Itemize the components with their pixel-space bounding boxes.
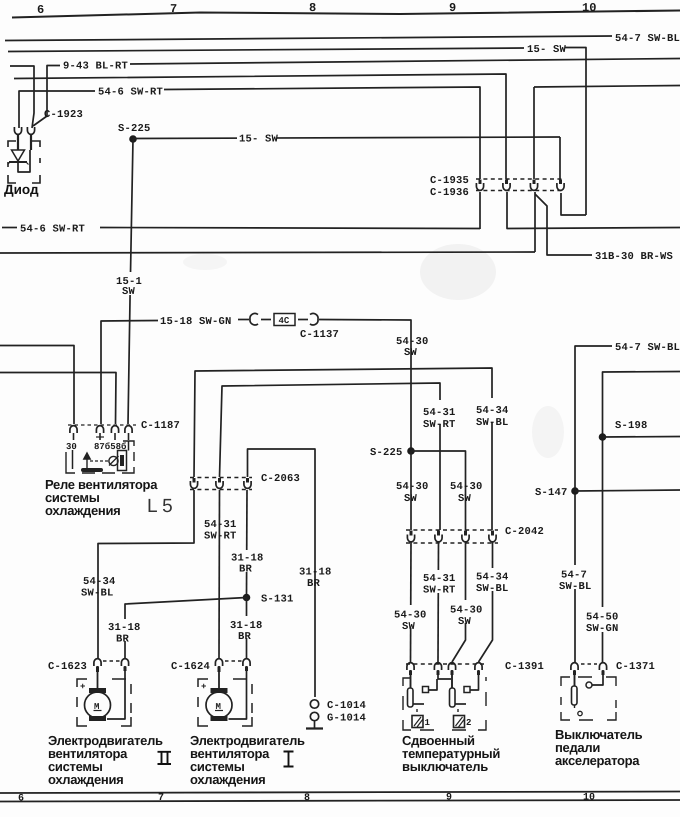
connector C-1923 pin 1	[14, 127, 21, 134]
wire 9-43 BL-RT left stub to diode	[10, 66, 34, 128]
C-1187 pin 30	[70, 426, 77, 433]
accel switch plunger	[572, 686, 578, 705]
svg-text:9: 9	[446, 793, 452, 804]
svg-text:BR: BR	[239, 564, 253, 576]
motor II return wire	[124, 667, 127, 672]
svg-text:C-1935: C-1935	[430, 175, 469, 187]
connector C-1187 dashed line	[68, 424, 136, 426]
svg-text:SW-RT: SW-RT	[423, 419, 456, 431]
C-2042 pin 3	[464, 531, 467, 536]
svg-text:S-225: S-225	[370, 447, 403, 459]
svg-text:Диод: Диод	[4, 182, 39, 197]
relay internal stems	[72, 450, 74, 469]
C-1187 pin 2	[96, 426, 103, 433]
svg-text:S-225: S-225	[118, 123, 151, 135]
wire C-2042 pin4 down diagonal to C-1391 pin4	[479, 542, 493, 662]
svg-text:C-1923: C-1923	[44, 109, 83, 121]
motor I bottom brush	[211, 716, 228, 721]
connector C-1936 dashed line	[476, 190, 564, 192]
svg-text:31B-30 BR-WS: 31B-30 BR-WS	[595, 251, 673, 263]
top border ruler line	[12, 11, 680, 18]
node S-147 splice	[571, 487, 579, 495]
C-2042 pin 4	[491, 531, 494, 536]
motor II M1 feed wire	[97, 666, 99, 690]
C-1935 pin 3	[533, 180, 536, 185]
temp switch pin3 stem	[451, 670, 453, 688]
temp switch pin1 stem	[410, 670, 412, 688]
motor I M2 body	[206, 692, 232, 718]
svg-text:54-34: 54-34	[476, 405, 509, 417]
svg-text:BR: BR	[307, 578, 321, 590]
label 15- SW mid	[237, 128, 277, 140]
svg-text:54-31: 54-31	[204, 519, 237, 531]
svg-text:C-1624: C-1624	[171, 661, 210, 673]
svg-text:10: 10	[583, 793, 595, 804]
svg-text:54-30: 54-30	[450, 481, 483, 493]
connector C-1371 dashes	[581, 663, 597, 665]
svg-text:54-31: 54-31	[423, 407, 456, 419]
svg-text:54-7 SW-BL: 54-7 SW-BL	[615, 342, 680, 354]
connector C-1923 pin 2	[27, 127, 34, 134]
svg-text:1: 1	[425, 718, 431, 728]
svg-text:54-31: 54-31	[423, 573, 456, 585]
svg-text:54-34: 54-34	[476, 572, 509, 584]
inline connector 4C box	[274, 314, 295, 326]
svg-text:6: 6	[18, 794, 24, 805]
svg-text:4C: 4C	[279, 316, 290, 326]
wire C-2063 pin1 down to motor II	[98, 490, 194, 658]
svg-text:54-7 SW-BL: 54-7 SW-BL	[615, 33, 680, 45]
svg-text:C-1014: C-1014	[327, 700, 366, 712]
svg-text:15-18 SW-GN: 15-18 SW-GN	[160, 316, 232, 328]
wire corner down to C-1935 pin 4	[559, 137, 561, 179]
wire pin3 branch to 31B-30 label	[535, 194, 592, 255]
svg-text:C-1187: C-1187	[141, 420, 180, 432]
wire motor II pin2 up over to S-131	[125, 598, 247, 659]
label 54-34 SW-BL right column	[474, 398, 508, 422]
label 31-18 BR above S-131	[229, 550, 262, 572]
label 54-30 SW below pin3	[448, 600, 481, 623]
relay pin stems	[73, 433, 75, 440]
connector C-1391 dashed line	[406, 663, 484, 665]
accel switch lower dot	[574, 705, 576, 708]
temp switch box dashed	[403, 677, 486, 730]
svg-text:G-1014: G-1014	[327, 713, 366, 725]
wire branch S-225 to pin3 column	[411, 451, 466, 530]
C-1371 pin 2	[599, 663, 606, 670]
svg-text:15- SW: 15- SW	[527, 44, 567, 56]
svg-text:8: 8	[309, 1, 316, 15]
C-2063 pin 2	[218, 478, 221, 483]
C-2063 pin 1	[193, 478, 196, 483]
svg-text:54-6 SW-RT: 54-6 SW-RT	[20, 224, 85, 236]
connector C-2042 dashed line 2	[406, 542, 498, 544]
relay armature bar	[81, 468, 103, 472]
wire 9-43 BL-RT bus to right edge	[130, 59, 680, 65]
svg-text:SW: SW	[402, 621, 416, 633]
temp switch plunger 1	[408, 688, 414, 707]
svg-text:9-43 BL-RT: 9-43 BL-RT	[63, 61, 128, 73]
wire S-131 down to C-1624 pin2	[246, 598, 248, 659]
svg-text:31-18: 31-18	[108, 622, 141, 634]
svg-text:C-1137: C-1137	[300, 329, 339, 341]
wire 15- SW corner to vertical	[565, 48, 586, 216]
wire pin3 down to long 31 bus	[534, 192, 536, 252]
svg-text:54-30: 54-30	[450, 605, 483, 617]
svg-text:SW-GN: SW-GN	[586, 623, 619, 635]
C-1935 pin 1	[479, 180, 482, 185]
wire S-198 branch right	[603, 436, 680, 439]
connector C-2042 dashed line 1	[406, 529, 498, 531]
svg-text:SW: SW	[458, 616, 472, 628]
svg-text:охлаждения: охлаждения	[45, 503, 120, 518]
C-1391 pin 4	[475, 663, 482, 670]
C-1623 pin 2	[121, 659, 128, 666]
C-2042 pin 2	[437, 531, 440, 536]
C-1187 pin 4	[125, 426, 132, 433]
C-1623 pin 1	[94, 659, 101, 666]
wire C-2063 pin2 down to C-1624 pin1	[203, 517, 236, 539]
svg-text:15- SW: 15- SW	[239, 134, 279, 146]
inline connector C-1137 female half	[238, 319, 249, 321]
wire C-2042 pin2 down to C-1391	[437, 542, 440, 662]
label 54-7 SW-BL column	[557, 565, 591, 589]
wire C-2063 pin2 up to bus y386	[220, 383, 441, 530]
wire 15-1 SW vertical from S-225 to relay	[128, 139, 133, 424]
svg-text:C-2063: C-2063	[261, 473, 300, 485]
wire 15-18 to 54-30 corner	[319, 320, 411, 452]
svg-text:54-30: 54-30	[396, 481, 429, 493]
svg-text:SW: SW	[404, 347, 418, 359]
svg-text:10: 10	[582, 1, 596, 15]
temp switch pin2 wire and contact	[437, 671, 440, 676]
diode D1 symbol	[12, 150, 25, 161]
svg-text:54-6 SW-RT: 54-6 SW-RT	[98, 87, 163, 99]
relay coil dash-dot link	[90, 460, 108, 462]
label 15-1 SW	[114, 272, 146, 295]
svg-text:54-50: 54-50	[586, 612, 619, 624]
node S-198 splice	[599, 433, 607, 441]
bottom ruler line 1	[0, 792, 680, 794]
svg-text:7: 7	[158, 793, 164, 804]
temp switch plunger 2	[450, 688, 456, 707]
label 31-18 BR motor II	[106, 619, 139, 641]
motor II M1 body	[85, 692, 111, 718]
C-1624 pin 2	[243, 659, 250, 666]
svg-text:C-1391: C-1391	[505, 661, 544, 673]
wire 54-6 SW-RT lower bus	[2, 227, 17, 229]
svg-text:BR: BR	[238, 631, 252, 643]
label 54-31 SW-RT right column	[421, 400, 455, 424]
svg-text:SW-BL: SW-BL	[476, 583, 509, 595]
wire C-2042 pin3 down diagonal to C-1391 pin3	[452, 542, 466, 662]
C-1935 pin 4	[559, 180, 562, 185]
connector C-1623 dashes	[103, 660, 120, 662]
C-1371 pin 1	[571, 663, 578, 670]
relay armature arrow	[84, 453, 90, 470]
connector C-1935 dashed line	[476, 178, 564, 180]
svg-text:SW-RT: SW-RT	[423, 585, 456, 597]
wire 54-6 SW-RT to C-1935 pin 1	[164, 87, 480, 179]
svg-text:акселератора: акселератора	[555, 753, 640, 768]
relay coil circle	[109, 456, 118, 465]
motor II box dashed	[77, 679, 131, 726]
wire 9-43 BL-RT label branch	[33, 66, 60, 127]
temp switch contact arm 2	[455, 703, 466, 705]
terminal C-1014 ring	[310, 700, 318, 708]
inline connector dash	[261, 319, 271, 321]
temp switch contact arm 1	[413, 703, 424, 705]
svg-text:S-147: S-147	[535, 487, 568, 499]
C-1391 pin 3	[448, 663, 455, 670]
wire C-2063 pin3 down to S-131	[246, 490, 249, 594]
svg-text:9: 9	[449, 1, 456, 15]
inline connector dash 2	[298, 319, 308, 321]
wire right bus to C-1935 pin 3	[533, 87, 535, 179]
svg-text:6: 6	[37, 3, 44, 17]
relay K box dash-dot	[66, 441, 134, 473]
svg-text:C-1371: C-1371	[616, 661, 655, 673]
node S-131 splice	[243, 594, 251, 602]
inline connector male half	[310, 313, 318, 324]
svg-text:охлаждения: охлаждения	[48, 772, 123, 787]
svg-text:BR: BR	[116, 634, 130, 646]
bottom ruler line 2	[0, 800, 680, 802]
label 54-34 SW-BL below pin4	[474, 568, 508, 591]
temp switch element 2 box	[454, 716, 465, 728]
node S-225 lower splice	[407, 447, 415, 455]
wire diode loop	[18, 150, 30, 172]
svg-text:7: 7	[170, 2, 177, 16]
svg-text:SW-BL: SW-BL	[476, 417, 509, 429]
C-1624 pin 1	[215, 659, 222, 666]
connector C-2063 dashed line 1	[190, 477, 252, 479]
diode D1 pin1 stem	[17, 134, 19, 150]
wire S-147 branch right	[575, 490, 680, 491]
svg-text:SW-BL: SW-BL	[559, 581, 592, 593]
C-1935 pin 2	[505, 180, 508, 185]
svg-text:SW-RT: SW-RT	[204, 531, 237, 543]
motor I top brush	[211, 688, 228, 693]
svg-text:охлаждения: охлаждения	[190, 772, 265, 787]
svg-text:SW: SW	[458, 493, 472, 505]
wire stub to relay pin 30	[0, 346, 74, 425]
wire stub to relay pin 3	[0, 373, 116, 425]
motor II top brush	[89, 688, 106, 693]
wire C-2063 pin3 up and over to C-1014	[248, 449, 316, 697]
connector C-2063 dashed line 2	[190, 489, 252, 491]
C-1391 pin 1	[407, 663, 414, 670]
svg-text:2: 2	[466, 718, 471, 728]
wire 15- SW bus left part	[8, 48, 524, 52]
svg-text:+: +	[80, 682, 85, 692]
svg-text:L 5: L 5	[147, 496, 173, 517]
motor I box dashed	[198, 679, 252, 726]
relay coil body	[118, 451, 127, 471]
label 54-50 SW-GN column	[584, 607, 618, 632]
svg-text:54-34: 54-34	[83, 576, 116, 588]
label 31-18 BR below S-131	[228, 616, 261, 638]
wire 15- SW from S-225	[133, 137, 560, 139]
C-2063 pin 3	[246, 478, 249, 483]
wire 31 long bus to pin3	[0, 252, 535, 253]
node S-225 splice	[129, 135, 137, 143]
label roman I	[284, 752, 294, 767]
svg-text:S-131: S-131	[261, 594, 294, 606]
label roman II	[158, 752, 172, 764]
wire 54-6 SW-RT corner to diode pin 1	[19, 91, 95, 128]
wire C-2042 pin1 down to C-1391	[410, 542, 413, 662]
C-1187 pin 3	[111, 426, 118, 433]
svg-text:S-198: S-198	[615, 420, 648, 432]
wire pin2 down then right bus	[507, 192, 680, 229]
svg-text:SW-BL: SW-BL	[81, 588, 114, 600]
svg-text:30: 30	[66, 442, 77, 452]
wire 15-18 SW-GN corner down to relay	[101, 321, 158, 425]
wire 54-7 SW-BL right corner down	[575, 346, 612, 662]
svg-text:C-1936: C-1936	[430, 187, 469, 199]
label 54-31 SW-RT below pin2	[421, 570, 455, 593]
wire pin4 down and U to 15-SW vertical	[561, 193, 586, 215]
C-1391 pin 2	[434, 663, 441, 670]
svg-text:54-30: 54-30	[394, 610, 427, 622]
accel switch box dashed	[561, 677, 616, 720]
accel switch pin2 wire and contact	[602, 671, 605, 676]
svg-text:C-1623: C-1623	[48, 661, 87, 673]
svg-text:8: 8	[304, 793, 310, 804]
temp switch element 1 box	[412, 716, 423, 728]
diode box dashed	[8, 141, 40, 183]
wire pin1 down to 54-6 SW-RT lower bus	[479, 192, 481, 229]
svg-text:54-7: 54-7	[561, 570, 587, 582]
svg-text:выключатель: выключатель	[402, 759, 488, 774]
temp switch pin4 wire and contact	[477, 671, 480, 676]
wire C-2063 pin1 up to bus y371	[194, 368, 492, 530]
label 54-30 SW below pin1	[392, 605, 425, 628]
wire 54-7 SW-BL top bus	[5, 36, 612, 41]
ground G-1014	[310, 712, 318, 720]
svg-text:C-2042: C-2042	[505, 526, 544, 538]
wire bus to C-1935 pin 2	[14, 74, 506, 179]
motor I return wire	[245, 667, 248, 672]
wire right edge to S-198	[603, 372, 680, 663]
motor I M2 feed wire	[218, 666, 220, 690]
svg-text:+: +	[201, 682, 206, 692]
svg-text:31-18: 31-18	[299, 567, 332, 579]
connector C-1624 dashes	[225, 660, 242, 662]
C-2042 pin 1	[410, 531, 413, 536]
svg-text:SW: SW	[122, 286, 136, 298]
accel switch pin1 stem	[574, 670, 576, 686]
motor II bottom brush	[89, 716, 106, 721]
wire S-225 down to C-2042 pin1	[410, 451, 412, 530]
